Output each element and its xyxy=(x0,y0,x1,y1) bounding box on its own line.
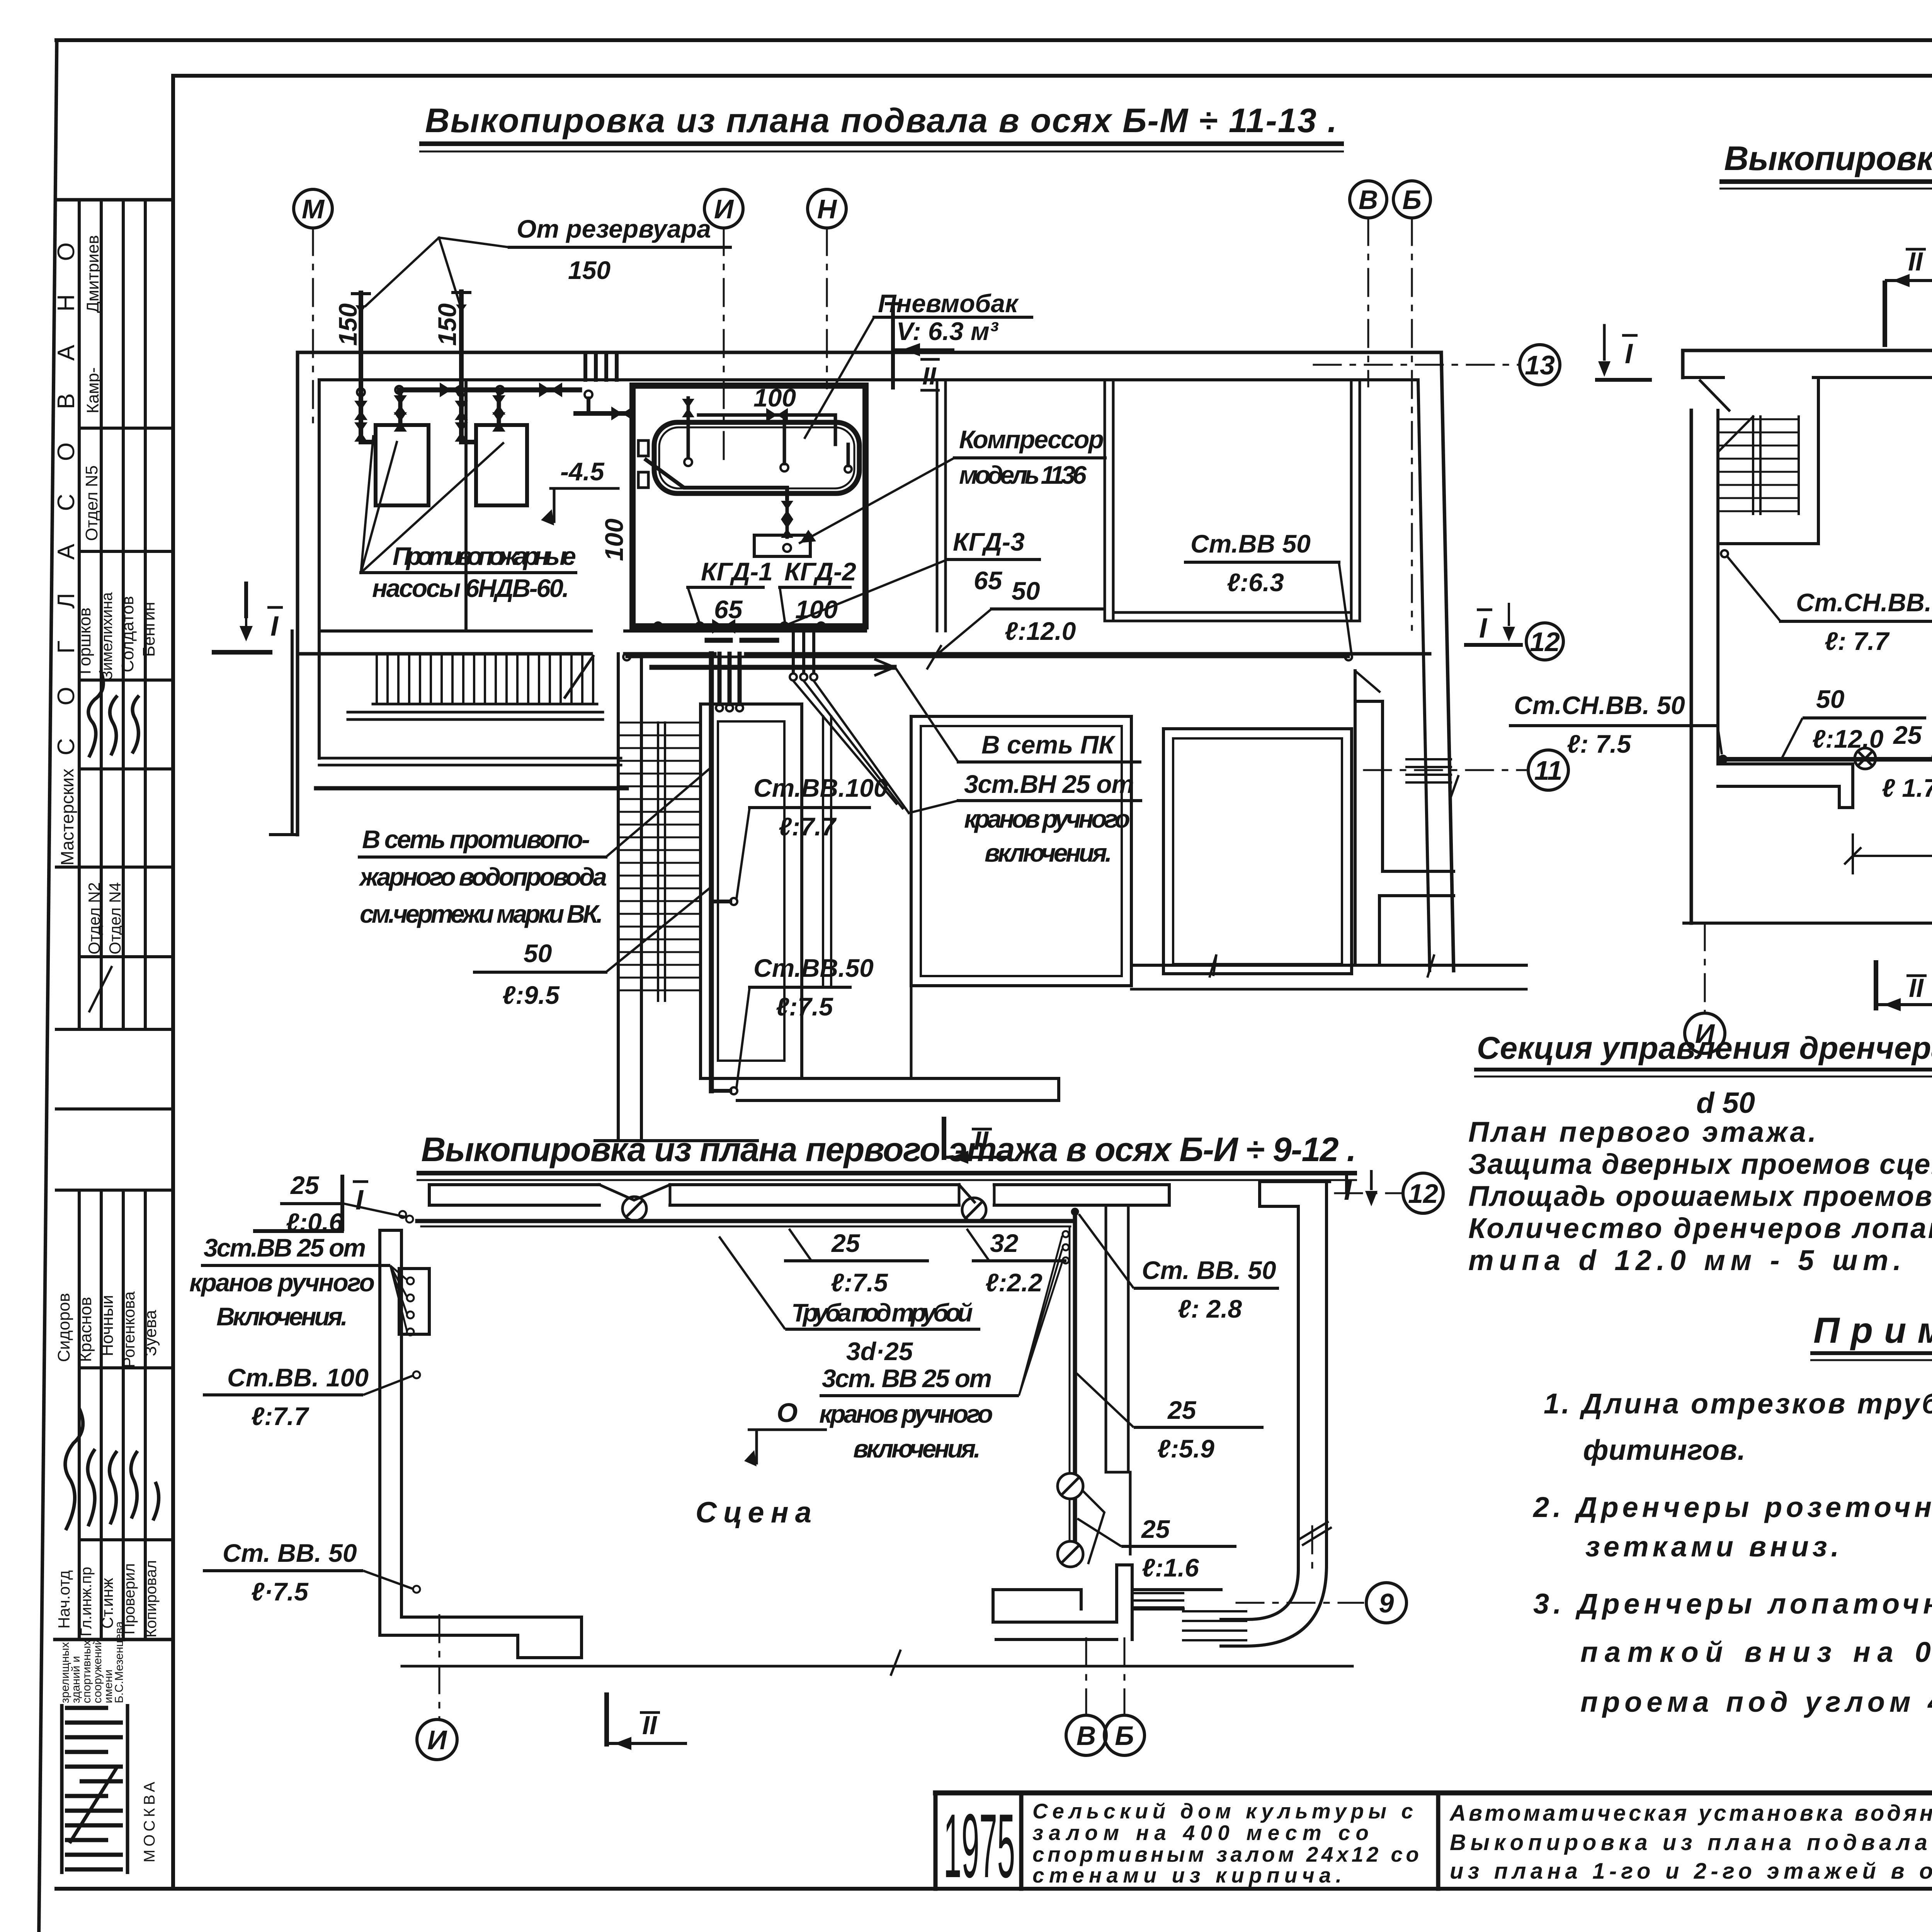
svg-text:Примечания:: Примечания: xyxy=(1813,1310,1932,1350)
svg-text:Ст.СН.ВВ. 50: Ст.СН.ВВ. 50 xyxy=(1514,691,1685,719)
svg-text:В сеть противопо-: В сеть противопо- xyxy=(362,825,590,854)
svg-text:ℓ:7.7: ℓ:7.7 xyxy=(251,1402,310,1430)
section I mark left xyxy=(212,582,272,652)
svg-text:Ст.ВВ 50: Ст.ВВ 50 xyxy=(1190,529,1311,558)
axis circles xyxy=(417,1719,457,1760)
pump room bottom wall xyxy=(298,652,591,656)
svg-text:кранов ручного: кранов ручного xyxy=(964,804,1130,833)
door sill hatch at axis 11 xyxy=(1406,759,1451,782)
tank room heavy outline xyxy=(633,386,866,626)
section II mark top xyxy=(1885,274,1932,347)
svg-text:Защита дверных проемов сцен: Защита дверных проемов сцены. xyxy=(1468,1148,1932,1180)
shaft bottom xyxy=(595,1139,757,1142)
svg-text:150: 150 xyxy=(333,303,362,346)
svg-text:100: 100 xyxy=(795,595,838,624)
svg-text:Выкопировка из плана 2-г: Выкопировка из плана 2-го этажа В осях Б… xyxy=(1724,139,1932,177)
svg-text:спортивным залом 24х12 со: спортивным залом 24х12 со xyxy=(1032,1842,1419,1866)
svg-text:ℓ:7.5: ℓ:7.5 xyxy=(831,1268,888,1297)
svg-text:И: И xyxy=(1695,1019,1715,1049)
svg-text:ℓ·7.5: ℓ·7.5 xyxy=(251,1577,309,1606)
axis line Б xyxy=(1411,218,1413,630)
svg-text:Солдатов: Солдатов xyxy=(118,596,137,672)
riser connect pipe xyxy=(585,391,592,398)
axis circle И xyxy=(704,189,743,228)
tank inner top pipe xyxy=(699,413,835,417)
svg-text:ℓ:7.5: ℓ:7.5 xyxy=(776,992,833,1021)
corridor wall pair xyxy=(822,716,824,986)
svg-text:ℓ: 2.8: ℓ: 2.8 xyxy=(1178,1294,1242,1323)
svg-text:И: И xyxy=(714,194,734,224)
institute logo block xyxy=(62,1704,128,1874)
svg-text:Ст.инж: Ст.инж xyxy=(98,1578,116,1629)
svg-text:150: 150 xyxy=(433,303,461,346)
axis line 13 xyxy=(1314,364,1519,366)
svg-text:50: 50 xyxy=(1012,577,1040,605)
svg-text:включения.: включения. xyxy=(853,1434,981,1463)
svg-text:В: В xyxy=(1359,185,1378,215)
svg-text:ℓ 1.7: ℓ 1.7 xyxy=(1882,774,1932,802)
svg-text:ℓ: 7.5: ℓ: 7.5 xyxy=(1567,730,1631,758)
svg-text:1. Длина отрезков труб: 1. Длина отрезков труб указана по центра… xyxy=(1544,1388,1932,1420)
svg-text:ℓ:0.6: ℓ:0.6 xyxy=(286,1208,344,1236)
svg-text:II: II xyxy=(922,362,937,390)
axis line В xyxy=(1367,218,1369,386)
bottom band walls xyxy=(1718,762,1853,765)
svg-text:Ст. ВВ. 50: Ст. ВВ. 50 xyxy=(223,1539,357,1567)
svg-text:Дмитриев: Дмитриев xyxy=(83,235,102,313)
svg-text:25: 25 xyxy=(831,1229,861,1257)
partition x2425 xyxy=(936,380,939,631)
svg-text:проема под углом 45°: проема под углом 45° к плоскости проема … xyxy=(1580,1686,1932,1718)
svg-text:В: В xyxy=(1077,1721,1096,1751)
svg-text:3ст.ВВ 25 от: 3ст.ВВ 25 от xyxy=(204,1233,366,1262)
svg-text:из плана 1-го и 2-го этаж: из плана 1-го и 2-го этажей в осях А-И ÷… xyxy=(1450,1859,1932,1884)
svg-text:Ст.СН.ВВ. 100: Ст.СН.ВВ. 100 xyxy=(1796,588,1932,617)
dimension line 9.0 xyxy=(1853,855,1932,857)
svg-text:жарного водопровода: жарного водопровода xyxy=(359,862,607,891)
axis circle 11 xyxy=(1528,750,1568,790)
door swing basement xyxy=(565,656,593,697)
svg-text:II: II xyxy=(1909,973,1924,1003)
main vertical pipe xyxy=(709,654,714,1091)
valve symbols basement xyxy=(354,304,793,634)
room A walls xyxy=(701,704,802,1078)
stub to stVV100 xyxy=(711,900,730,903)
left wall lower xyxy=(291,631,294,835)
stair shaft vertical xyxy=(617,654,620,1141)
basement labels xyxy=(359,238,1351,1088)
svg-text:включения.: включения. xyxy=(985,838,1112,867)
svg-text:25: 25 xyxy=(1141,1515,1170,1543)
main stage pipe horizontal xyxy=(417,1219,1075,1223)
svg-text:Сцена: Сцена xyxy=(696,1496,811,1529)
svg-text:II: II xyxy=(1908,247,1923,276)
svg-text:см.чертежи марки ВК.: см.чертежи марки ВК. xyxy=(360,900,603,928)
manifold at left xyxy=(406,1216,413,1223)
svg-text:Гл.инж.пр: Гл.инж.пр xyxy=(78,1567,95,1636)
left wall xyxy=(378,1230,381,1635)
svg-text:12: 12 xyxy=(1530,627,1560,657)
st sn vv100 marker xyxy=(1721,550,1728,557)
stamp right border xyxy=(171,76,175,1889)
axis circle M xyxy=(294,189,332,228)
axis dashdot И В Б xyxy=(1704,923,1706,1012)
left wall bottom xyxy=(401,1616,582,1619)
top wall segments xyxy=(429,1183,599,1186)
svg-text:100: 100 xyxy=(753,383,796,412)
takeoff circles on bottom main xyxy=(654,622,662,630)
svg-text:2. Дренчеры розеточного: 2. Дренчеры розеточного типа установить … xyxy=(1532,1491,1932,1523)
outer top border xyxy=(56,38,1932,42)
svg-text:50: 50 xyxy=(524,939,552,968)
bottom right portal walls xyxy=(993,1588,1081,1591)
pump drop 2 xyxy=(497,390,501,425)
svg-text:Нач.отд: Нач.отд xyxy=(55,1570,73,1629)
room B walls xyxy=(911,716,1131,986)
svg-text:d 50: d 50 xyxy=(1696,1087,1755,1119)
svg-text:стенами из кирпича.: стенами из кирпича. xyxy=(1032,1863,1342,1887)
risers at wall near stair xyxy=(719,654,740,704)
svg-text:ℓ:1.6: ℓ:1.6 xyxy=(1142,1553,1199,1582)
circles on left wall xyxy=(413,1371,420,1378)
pipe corner circle xyxy=(1072,1209,1078,1215)
svg-text:Отдел N4: Отдел N4 xyxy=(106,882,124,954)
stub to stVV50 xyxy=(711,1089,730,1093)
svg-text:КГД-3: КГД-3 xyxy=(953,527,1025,556)
room bottom wall y1600 xyxy=(1113,611,1351,614)
project name cell xyxy=(1032,1799,1419,1887)
thin pipe pair right of stage xyxy=(1127,1206,1130,1472)
heavy stub below xyxy=(707,638,777,643)
svg-text:Рогенкова: Рогенкова xyxy=(120,1291,138,1368)
B set PK pipe xyxy=(652,665,894,670)
bottom right walls xyxy=(1354,671,1357,965)
svg-text:Ст.ВВ. 100: Ст.ВВ. 100 xyxy=(227,1363,369,1392)
svg-text:Выкопировка из плана подвал: Выкопировка из плана подвала в осях Б-М÷… xyxy=(1450,1830,1932,1855)
first floor labels xyxy=(189,1171,1276,1606)
svg-text:12: 12 xyxy=(1408,1179,1438,1209)
wide stair treads xyxy=(377,656,593,704)
2nd floor labels xyxy=(1514,417,1932,890)
right wall pair xyxy=(1297,1206,1300,1526)
section II mark bottom xyxy=(607,1692,687,1750)
section I mark right near 12 xyxy=(1464,603,1523,645)
section I mark top xyxy=(253,1170,1378,1231)
svg-text:Н: Н xyxy=(817,194,837,224)
section II mark bottom xyxy=(944,1117,1009,1164)
svg-text:32: 32 xyxy=(990,1229,1019,1257)
svg-text:Ст.ВВ.50: Ст.ВВ.50 xyxy=(753,954,874,982)
bottom valve chain xyxy=(786,498,789,537)
circle 12 first floor xyxy=(1403,1173,1443,1213)
riser pipe 150 left xyxy=(361,293,374,442)
inner partition left of tank room xyxy=(464,380,468,631)
tank inner pipe 1 xyxy=(687,398,690,458)
svg-text:От резервуара: От резервуара xyxy=(517,214,711,243)
bottom ground line xyxy=(402,1665,1352,1668)
svg-text:3. Дренчеры лопаточного: 3. Дренчеры лопаточного типа установить … xyxy=(1533,1588,1932,1620)
svg-text:Копировал: Копировал xyxy=(143,1560,160,1638)
portal sill right + curve to 9 xyxy=(1183,1611,1246,1640)
svg-text:залом на 400 мест со: залом на 400 мест со xyxy=(1032,1821,1369,1845)
valve on wall 2 xyxy=(962,1198,986,1222)
section II mark top xyxy=(885,304,954,389)
inner top frame line xyxy=(173,74,1932,78)
BOTTOM TITLE BLOCK xyxy=(935,1793,1932,1889)
left end diagonal xyxy=(1700,381,1729,410)
lower band under rooms xyxy=(737,1077,1059,1080)
axis circle 12 basement xyxy=(1526,623,1563,660)
axis dash dots xyxy=(439,1615,440,1719)
svg-text:паткой вниз на 0,15 м: паткой вниз на 0,15 м выше дверного xyxy=(1580,1636,1932,1668)
svg-text:Ст. ВВ. 50: Ст. ВВ. 50 xyxy=(1142,1256,1276,1284)
outer left border xyxy=(39,40,57,1932)
break marks bottom right xyxy=(1209,954,1434,978)
leaders xyxy=(1781,718,1803,759)
svg-text:Сидоров: Сидоров xyxy=(54,1293,73,1362)
stamp column verticals xyxy=(78,200,81,1029)
wall pipe 50 l12 xyxy=(627,656,1349,658)
svg-text:кранов ручного: кранов ручного xyxy=(819,1400,993,1428)
svg-text:11: 11 xyxy=(1534,755,1563,786)
sheet name cell xyxy=(1449,1801,1932,1884)
section II mark bottom xyxy=(1876,960,1932,1011)
pump drop 1 xyxy=(398,390,403,425)
svg-text:13: 13 xyxy=(1525,350,1555,380)
lower corridor band xyxy=(319,757,621,760)
svg-text:I: I xyxy=(1344,1175,1352,1206)
svg-text:И: И xyxy=(427,1725,447,1755)
svg-text:зетками вниз.: зетками вниз. xyxy=(1585,1531,1839,1563)
svg-text:М: М xyxy=(302,194,325,224)
svg-text:ℓ:2.2: ℓ:2.2 xyxy=(985,1268,1043,1297)
flange squares xyxy=(638,440,648,456)
stamp rotated texts xyxy=(53,209,160,1638)
svg-text:Бенгин: Бенгин xyxy=(139,602,158,657)
svg-text:ℓ:12.0: ℓ:12.0 xyxy=(1812,724,1884,753)
svg-text:-4.5: -4.5 xyxy=(560,457,605,486)
axis circle 13 xyxy=(1520,345,1560,385)
connecting stub at middle xyxy=(1509,379,1932,856)
svg-text:Отдел N5: Отдел N5 xyxy=(82,465,101,541)
svg-text:модель 1136: модель 1136 xyxy=(959,461,1087,489)
valve on wall 1 xyxy=(622,1197,646,1221)
inner bottom frame line xyxy=(56,1887,1932,1891)
svg-text:Выкопировка из плана пер: Выкопировка из плана первого этажа в ося… xyxy=(421,1130,1356,1168)
svg-text:65: 65 xyxy=(714,595,743,624)
top wall small risers xyxy=(585,355,617,380)
pump 1 xyxy=(376,425,429,505)
svg-text:Автоматическая установка вод: Автоматическая установка водяного пожаро… xyxy=(1449,1801,1932,1826)
svg-text:типа d 12.0 мм - 5 шт.: типа d 12.0 мм - 5 шт. xyxy=(1468,1244,1901,1276)
svg-text:В сеть ПК: В сеть ПК xyxy=(981,730,1116,759)
svg-text:II: II xyxy=(642,1711,658,1740)
svg-text:Площадь орошаемых проемов 1: Площадь орошаемых проемов 11.2 xyxy=(1468,1180,1932,1212)
svg-text:50: 50 xyxy=(1816,685,1845,713)
axis circle Н xyxy=(808,189,846,228)
svg-text:25: 25 xyxy=(1893,721,1922,749)
svg-text:I: I xyxy=(1625,338,1633,369)
svg-text:ℓ:9.5: ℓ:9.5 xyxy=(502,981,560,1009)
drencher pipe xyxy=(1723,757,1932,762)
sill hatch xyxy=(1134,1593,1183,1607)
stamp horizontal dividers xyxy=(56,198,173,202)
axis line Н xyxy=(826,228,828,388)
partition x3500 xyxy=(1350,380,1353,621)
title block top border xyxy=(935,1791,1932,1796)
axis circle 9 first floor xyxy=(1366,1583,1406,1623)
svg-text:Выкопировка из плана под: Выкопировка из плана подвала в осях Б-М … xyxy=(425,101,1337,139)
stair railing band xyxy=(348,711,603,714)
tank pipe 2 xyxy=(783,415,786,464)
elevation mark 0 xyxy=(744,1430,827,1466)
svg-text:ℓ:5.9: ℓ:5.9 xyxy=(1157,1434,1214,1463)
bottom line xyxy=(1684,922,1932,925)
svg-text:O: O xyxy=(777,1398,798,1428)
small circles on riser xyxy=(1063,1231,1069,1237)
title block verticals xyxy=(934,1793,938,1889)
room C walls xyxy=(1163,729,1352,974)
axis circles xyxy=(1685,1013,1725,1053)
tank drain diagonal xyxy=(646,460,787,498)
left wall xyxy=(1690,410,1693,923)
svg-text:фитингов.: фитингов. xyxy=(1583,1434,1745,1466)
stamp signatures squiggles xyxy=(65,670,159,1530)
svg-text:25: 25 xyxy=(1167,1396,1197,1424)
svg-text:150: 150 xyxy=(568,256,611,284)
svg-text:Отдел N2: Отдел N2 xyxy=(85,882,103,954)
svg-text:V: 6.3 м³: V: 6.3 м³ xyxy=(896,317,999,345)
riser pipe 150 right xyxy=(461,292,475,442)
diagonal pipe bundle xyxy=(793,681,909,813)
svg-text:3ст.ВН 25 от: 3ст.ВН 25 от xyxy=(964,770,1134,798)
axis circle letters xyxy=(302,185,1562,786)
svg-text:Включения.: Включения. xyxy=(216,1302,348,1331)
svg-text:3ст. ВВ 25 от: 3ст. ВВ 25 от xyxy=(822,1364,992,1393)
vertical pipe right xyxy=(1073,1212,1077,1565)
svg-text:ℓ:6.3: ℓ:6.3 xyxy=(1227,568,1284,597)
svg-text:МОСКВА: МОСКВА xyxy=(141,1779,158,1862)
break marks on right wall xyxy=(1298,1522,1331,1545)
svg-text:3d·25: 3d·25 xyxy=(846,1337,913,1366)
svg-text:I: I xyxy=(355,1185,364,1216)
KGD apparatus box xyxy=(754,535,810,556)
svg-text:Мастерских: Мастерских xyxy=(57,769,77,866)
shaft railing xyxy=(657,723,659,1001)
svg-text:План первого этажа.: План первого этажа. xyxy=(1468,1116,1816,1148)
valves on vertical pipe xyxy=(1058,1473,1083,1499)
LEFT STAMP COLUMN xyxy=(55,76,173,1889)
main suction pipe xyxy=(399,388,580,393)
svg-text:Количество дренчеров лопат: Количество дренчеров лопаточного xyxy=(1468,1212,1932,1244)
axis line 11 xyxy=(1364,769,1527,771)
axis circle В xyxy=(1350,181,1387,218)
svg-text:Горшков: Горшков xyxy=(75,607,94,674)
svg-text:Противопожарные: Противопожарные xyxy=(393,542,576,570)
svg-text:Ст.ВВ.100: Ст.ВВ.100 xyxy=(753,774,888,802)
top wall xyxy=(1683,349,1932,352)
svg-text:Труба под трубой: Труба под трубой xyxy=(791,1298,973,1327)
shaft treads xyxy=(620,723,699,990)
svg-text:9: 9 xyxy=(1379,1588,1394,1618)
svg-text:ℓ:7.7: ℓ:7.7 xyxy=(779,812,837,841)
svg-text:Ночный: Ночный xyxy=(98,1295,117,1356)
svg-text:Сельский дом культуры с: Сельский дом культуры с xyxy=(1032,1799,1413,1823)
svg-text:ℓ: 7.7: ℓ: 7.7 xyxy=(1825,627,1890,655)
svg-text:насосы 6НДВ-60.: насосы 6НДВ-60. xyxy=(372,574,569,602)
svg-text:ℓ:12.0: ℓ:12.0 xyxy=(1005,617,1076,645)
svg-text:КГД-1: КГД-1 xyxy=(701,557,773,586)
svg-text:Б: Б xyxy=(1115,1721,1134,1751)
stair block xyxy=(1817,378,1820,544)
svg-text:Краснов: Краснов xyxy=(76,1297,95,1362)
pump 2 xyxy=(476,425,527,505)
svg-text:Зуева: Зуева xyxy=(141,1310,160,1356)
axis circle Б xyxy=(1393,181,1430,218)
first floor leaders xyxy=(201,1204,1279,1589)
svg-text:Зимелихина: Зимелихина xyxy=(99,592,116,680)
axis line M xyxy=(312,228,314,429)
svg-text:1975: 1975 xyxy=(944,1795,1015,1896)
svg-text:100: 100 xyxy=(600,519,628,561)
svg-text:Б.С.Мезенцева: Б.С.Мезенцева xyxy=(113,1621,126,1703)
svg-text:КГД-2: КГД-2 xyxy=(784,557,856,586)
pump room right outer wall xyxy=(1441,352,1454,971)
svg-text:I: I xyxy=(270,611,279,642)
svg-text:65: 65 xyxy=(974,566,1003,595)
door diagonal right xyxy=(1355,671,1379,692)
svg-text:Камр-: Камр- xyxy=(83,367,102,413)
axis line И xyxy=(723,228,725,462)
svg-text:Б: Б xyxy=(1402,185,1422,215)
drencher symbols xyxy=(1855,748,1932,769)
drops with circles to lower level xyxy=(793,626,814,673)
partition x2860 xyxy=(1104,380,1106,621)
svg-text:кранов ручного: кранов ручного xyxy=(189,1268,375,1297)
svg-text:I: I xyxy=(1479,613,1488,644)
pneumatic tank xyxy=(654,422,859,493)
tank stub right xyxy=(847,444,850,466)
pump room left wall xyxy=(296,352,299,835)
top right corner wall xyxy=(1260,1180,1330,1183)
pump room top wall xyxy=(298,351,1441,354)
I mark left xyxy=(1603,325,1606,359)
svg-text:25: 25 xyxy=(290,1171,320,1199)
svg-text:Компрессор: Компрессор xyxy=(959,425,1104,454)
